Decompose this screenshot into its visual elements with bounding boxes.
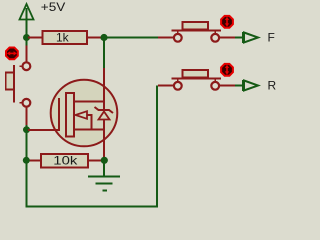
button SW1 bottom pin	[26, 107, 28, 125]
resistor R1 1k leads	[28, 37, 104, 39]
wire node B down to drain	[103, 38, 105, 69]
node B junction (R1 / wire to F / drain)	[100, 34, 107, 41]
button SW1 top pin	[26, 38, 28, 45]
mosfet Q1 gate lead	[28, 129, 60, 131]
button SW1 top stub	[20, 65, 23, 67]
button SW1 bottom stub	[20, 102, 23, 104]
button SW3 actuator body	[183, 70, 209, 78]
wire node C down to node D	[25, 130, 27, 160]
resistor R2 10k body	[41, 154, 88, 168]
button SW3 left stub	[177, 80, 179, 82]
button SW3 right pin	[220, 85, 235, 87]
mosfet Q1 source pin	[103, 130, 105, 161]
button SW2 left stub	[177, 32, 179, 34]
button SW1 interactive marker octagon	[6, 48, 18, 60]
button SW3 right contact	[211, 82, 219, 90]
button SW3 right stub	[214, 80, 216, 82]
button SW1 bottom contact	[23, 99, 31, 107]
mosfet Q1 channel rectangle	[66, 93, 74, 137]
mosfet Q1 drain rail	[75, 101, 106, 103]
mosfet Q1 gate plate	[58, 98, 60, 131]
wire R button to terminal	[235, 85, 242, 87]
terminal R	[243, 80, 258, 91]
button SW2 left contact	[174, 34, 182, 42]
button SW3 (R) left pin	[158, 85, 173, 87]
button SW3 bar	[172, 78, 222, 80]
power +5V symbol	[26, 8, 28, 38]
mosfet Q1 body arrow	[76, 111, 88, 119]
button SW2 interactive marker octagon	[221, 16, 233, 28]
mosfet Q1 drain pin	[103, 68, 105, 102]
svg-text:R: R	[268, 79, 277, 93]
svg-text:F: F	[268, 31, 275, 45]
button SW3 interactive marker octagon	[221, 64, 233, 76]
button SW2 bar	[172, 30, 222, 32]
button SW2 right stub	[214, 32, 216, 34]
ground stem	[103, 160, 105, 177]
button SW3 left contact	[174, 82, 182, 90]
resistor R2 10k leads	[28, 160, 104, 162]
mosfet Q1 body circle	[51, 80, 118, 147]
resistor R1 1k body	[43, 31, 88, 44]
mosfet Q1 body diode cathode bar	[95, 107, 114, 113]
mosfet Q1 source rail	[75, 129, 106, 131]
node C junction (button / gate / down wire)	[23, 126, 30, 133]
node E junction (source / 10k / ground)	[101, 157, 108, 164]
wire node D down and along bottom to R button column	[26, 86, 157, 207]
button SW2 (F) left pin	[158, 37, 173, 39]
button SW2 actuator body	[183, 22, 209, 30]
button SW1 plunger bar	[13, 65, 15, 103]
wire F button to terminal	[235, 37, 242, 39]
button SW2 right contact	[211, 34, 219, 42]
button SW2 right pin	[220, 37, 235, 39]
wire node B to F button	[104, 37, 158, 39]
node D junction (10k / down wire / bottom wire)	[23, 157, 30, 164]
mosfet Q1 body diode triangle	[99, 112, 110, 120]
svg-text:1k: 1k	[56, 31, 70, 45]
button SW1 actuator body	[6, 73, 14, 90]
ground bars	[88, 177, 120, 191]
svg-text:10k: 10k	[53, 153, 78, 167]
terminal F	[243, 32, 258, 43]
button SW1 top contact	[23, 62, 31, 70]
mosfet Q1 body diode anode link	[103, 120, 105, 130]
mosfet Q1 body diode cathode link	[103, 102, 105, 111]
node A junction (+5V / R1 / button top)	[23, 34, 30, 41]
svg-text:+5V: +5V	[41, 0, 66, 14]
